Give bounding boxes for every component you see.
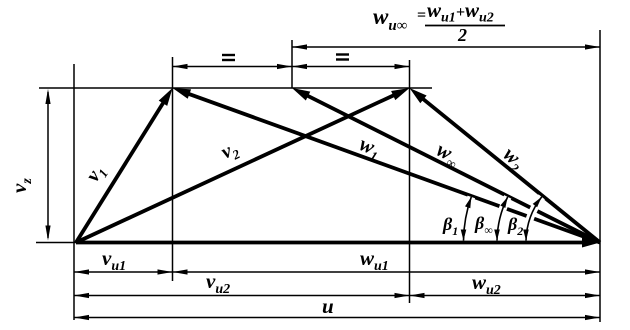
extension line at midpoint M x=292 <box>291 40 293 88</box>
extension line at origin x=74 <box>73 64 75 320</box>
baseline left tick <box>36 242 76 244</box>
svg-text:β2: β2 <box>507 214 523 238</box>
svg-text:w2: w2 <box>497 142 531 176</box>
dimension v_z vertical left <box>45 89 50 241</box>
dimension equal span M to A2 <box>292 64 410 69</box>
extension line below apex A1 x=172.5 <box>172 57 174 281</box>
extension line below apex A2 x=409.5 <box>409 60 411 303</box>
svg-text:wu1+wu2: wu1+wu2 <box>427 0 494 26</box>
svg-text:v1: v1 <box>82 161 111 188</box>
angle arc beta-infinity <box>494 197 508 241</box>
dimension w_u-infinity (top, 292 to 600) <box>292 44 600 49</box>
vector v1 <box>76 88 173 243</box>
formula w_u-infinity = (w_u1 + w_u2)/2 <box>373 0 505 45</box>
dimension v_u2 (row2 left) <box>74 293 410 298</box>
equality mark 1 <box>222 55 235 60</box>
svg-text:β∞: β∞ <box>474 213 493 237</box>
vector w2 <box>410 88 601 243</box>
svg-text:2: 2 <box>457 25 467 45</box>
equality mark 2 <box>336 55 349 60</box>
svg-text:vu1: vu1 <box>102 246 126 274</box>
dimension w_u2 (row2 right) <box>410 293 601 298</box>
svg-text:vz: vz <box>7 178 35 193</box>
vector w1 <box>173 88 601 243</box>
svg-text:vu2: vu2 <box>206 269 230 297</box>
svg-text:wu1: wu1 <box>360 246 389 274</box>
dimension equal span A1 to M <box>173 64 293 69</box>
dimension u (row3) <box>74 315 600 320</box>
extension line at right end x=600 <box>599 30 601 322</box>
svg-text:u: u <box>322 294 334 318</box>
angle arc beta2 <box>523 197 542 241</box>
dimension v_u1 (row1 left) <box>74 269 173 274</box>
top horizontal reference line <box>39 87 432 89</box>
angle arc beta1 <box>461 197 472 241</box>
vector w-infinity <box>292 88 600 243</box>
svg-text:wu2: wu2 <box>472 270 501 298</box>
vector v2 <box>76 88 410 243</box>
svg-text:wu∞: wu∞ <box>373 4 407 34</box>
vector u (baseline) <box>76 238 600 248</box>
svg-text:=: = <box>417 7 426 24</box>
svg-text:β1: β1 <box>442 214 458 238</box>
svg-text:w1: w1 <box>355 131 384 164</box>
svg-text:v2: v2 <box>218 137 243 166</box>
dimension w_u1 (row1 right) <box>173 269 601 274</box>
svg-text:w∞: w∞ <box>431 137 464 172</box>
